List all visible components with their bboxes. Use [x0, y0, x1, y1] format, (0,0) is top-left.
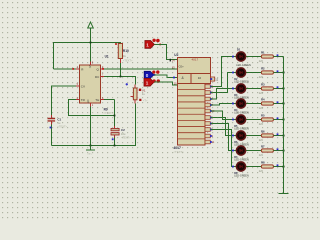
wire LED D6 row [237, 135, 261, 137]
ground symbol left stem [90, 146, 92, 151]
pin-state dot blue CO [210, 78, 212, 80]
wire LED D4 row [237, 103, 261, 105]
output pin box Q2 [205, 97, 210, 101]
svg-text:V1: V1 [142, 88, 146, 92]
pin-state dot blue Q4 [210, 110, 212, 112]
junction ground rail row 2 [283, 72, 285, 74]
wire LED D5 row [237, 119, 261, 121]
svg-text:R3: R3 [261, 83, 265, 87]
svg-text:LED-GREEN: LED-GREEN [234, 175, 249, 178]
svg-text:D1: D1 [237, 48, 241, 52]
LED D8 [236, 162, 245, 171]
svg-text:TH: TH [95, 98, 99, 102]
capacitor C2 bottom lead [114, 135, 116, 138]
pin stub U1 CV [76, 85, 80, 87]
pin-state dot blue C1 [50, 127, 52, 129]
junction ground rail row 5 [283, 119, 285, 121]
LED D7 [236, 146, 245, 155]
pin stub U1 GND [90, 103, 92, 107]
pin-state dot blue R8 [277, 164, 279, 166]
svg-text:U1: U1 [105, 55, 109, 59]
pin-state dot blue Q7 [210, 129, 212, 131]
carry out pin box [211, 77, 215, 81]
counter U2 enable block [178, 74, 192, 84]
svg-text:R5: R5 [261, 114, 265, 118]
wire U1 CV to C1 [52, 86, 77, 115]
capacitor C1 bottom lead [51, 122, 53, 125]
resistor R8 body [261, 165, 273, 168]
svg-text:R2: R2 [261, 67, 265, 71]
logicstate top toggle arrows [152, 39, 155, 42]
wire right ground rail [283, 57, 285, 194]
wire Q1 to LED D2 [211, 73, 238, 93]
wire R2 to ground rail [273, 72, 283, 74]
wire R5 to ground rail [273, 119, 283, 121]
pin-state dot blue R5 [277, 117, 279, 119]
resistor R1 body [261, 55, 273, 58]
wire U1 TR loop [69, 100, 115, 116]
pin-state dot blue R6 [277, 133, 279, 135]
svg-text:1: 1 [146, 80, 149, 85]
svg-text:R6: R6 [261, 130, 265, 134]
wire R8 to ground rail [273, 166, 283, 168]
pin-state dot blue Q2 [210, 98, 212, 100]
svg-text:C2: C2 [121, 128, 125, 132]
svg-text:R7: R7 [261, 145, 265, 149]
svg-text:<TEXT>: <TEXT> [173, 150, 184, 154]
junction ground rail / C2 [114, 145, 116, 147]
svg-text:<TEXT>: <TEXT> [123, 59, 133, 63]
pin-state dot blue LED D4 anode [232, 103, 234, 105]
junction VCC rail / U1 pin 8 [90, 42, 92, 44]
wire C2 bottom to ground rail [114, 138, 116, 146]
resistor R9 left tick [131, 96, 134, 98]
pin-state dot blue Q9 [210, 141, 212, 143]
svg-text:<T>: <T> [88, 153, 93, 156]
ground symbol right bar [279, 193, 289, 195]
pin stub U1 DC [101, 76, 105, 78]
pin-state dot blue R7 [277, 148, 279, 150]
resistor R10 body [118, 44, 122, 59]
pin-state dot blue LED D8 anode [232, 166, 234, 168]
op-amp U1 555 body [80, 65, 101, 103]
svg-text:10: 10 [198, 76, 202, 80]
wire LED D8 row [237, 166, 261, 168]
pin stub U1 TR [76, 99, 80, 101]
wire Q3 to LED D4 [211, 104, 238, 106]
logicstate mid (0) [144, 71, 154, 78]
wire R3 to ground rail [273, 88, 283, 90]
output pin box Q1 [205, 91, 210, 95]
pin-state dot blue Q8 [210, 135, 212, 137]
svg-text:220: 220 [259, 139, 264, 142]
wire C1 bottom to ground rail [51, 125, 53, 146]
svg-text:220: 220 [259, 107, 264, 110]
wire R1 to ground rail [273, 56, 283, 58]
resistor R5 body [261, 118, 273, 121]
wire Q5 to LED D6 [211, 118, 238, 136]
wire logicstate mid to U2 EN [154, 75, 178, 78]
svg-text:<TEXT>: <TEXT> [121, 135, 131, 139]
LED D4 [236, 99, 245, 108]
logicstate top (1) [145, 41, 154, 49]
svg-text:220: 220 [259, 170, 264, 173]
output pin box Q4 [205, 109, 210, 113]
wire U1 Q to U2 pin 13 [104, 68, 178, 70]
wire logicstate top to U2 CLK [154, 45, 177, 60]
svg-text:220: 220 [259, 76, 264, 79]
svg-text:220: 220 [259, 60, 264, 63]
pin-state dot blue LED D3 anode [232, 88, 234, 90]
junction ground rail row 8 [283, 166, 285, 168]
pin-state dot blue R4 [277, 101, 279, 103]
wire R4 to ground rail [273, 103, 283, 105]
pin-state dot blue Q0 [210, 86, 212, 88]
pin-state dot blue LED D7 anode [232, 150, 234, 152]
pin-state dot blue C2 [112, 138, 114, 140]
resistor R3 body [261, 87, 273, 90]
counter U2 output array [178, 84, 206, 146]
logicstate bottom (1) [144, 78, 154, 86]
svg-text:R1: R1 [261, 51, 265, 55]
capacitor C2 plates [111, 128, 119, 130]
resistor R9 top lead [134, 85, 136, 89]
pin-state dot red U1 pin 3 [102, 68, 104, 70]
svg-text:0: 0 [146, 73, 149, 78]
svg-text:U2: U2 [174, 53, 178, 57]
wire LED D3 row [237, 88, 261, 90]
pin-state dot blue Q5 [210, 117, 212, 119]
counter U2 4017 top block [178, 58, 211, 74]
pin-state blue cross on DC wire [126, 83, 128, 85]
output pin box Q8 [205, 134, 210, 138]
svg-text:220: 220 [259, 123, 264, 126]
output pin box Q0 [205, 85, 210, 89]
wire LED D2 row [237, 72, 261, 74]
svg-text:220: 220 [259, 154, 264, 157]
output pin box Q9 [205, 140, 210, 144]
svg-text:220: 220 [259, 92, 264, 95]
pin-state dot red near R10 top [115, 43, 117, 45]
svg-text:VC: VC [88, 65, 91, 69]
svg-text:R9: R9 [104, 107, 108, 111]
resistor R7 body [261, 149, 273, 152]
wire R9 bottom to ground rail [52, 104, 136, 146]
pin-state dot red logicstate top [159, 44, 161, 46]
output pin box Q3 [205, 103, 210, 107]
pin-state dot blue Q6 [210, 123, 212, 125]
logicstate bottom toggle arrows [152, 79, 155, 82]
wire Q0 to LED D1 [211, 57, 238, 87]
capacitor C1 top lead [51, 115, 53, 118]
wire U1 DC to R9 top [104, 77, 136, 85]
svg-text:C1: C1 [57, 117, 61, 121]
pin-state dot blue LED D6 anode [232, 135, 234, 137]
svg-text:1: 1 [146, 42, 149, 47]
pin-state dot blue Q1 [210, 92, 212, 94]
ground symbol left bar [86, 149, 95, 151]
svg-text:4017: 4017 [192, 58, 199, 62]
svg-text:R8: R8 [261, 161, 265, 165]
wire R10 bottom to DC node [120, 63, 122, 77]
wire U1 GND pin to ground rail [90, 107, 92, 150]
logicstate mid toggle arrows [152, 71, 155, 74]
resistor R10 bottom lead [120, 59, 122, 64]
svg-text:R4: R4 [261, 98, 265, 102]
resistor R9 body [133, 88, 137, 100]
power VCC arrow [88, 22, 94, 28]
svg-text:GN: GN [87, 99, 90, 103]
output pin box Q7 [205, 128, 210, 132]
pin stub U1 R [76, 68, 80, 70]
wire LED D7 row [237, 150, 261, 152]
voltage probe V1 marker [139, 89, 141, 91]
wire Q7 to LED D8 [211, 130, 238, 167]
resistor R9 bottom lead [134, 100, 136, 104]
LED D1 [236, 52, 245, 61]
junction ground rail / U1 GND [90, 145, 92, 147]
svg-text:<T>: <T> [143, 98, 148, 102]
wire top VCC rail [54, 43, 121, 70]
pin-state dot red U1 pin 4 [72, 68, 74, 70]
wire Q4 to LED D5 [211, 111, 238, 120]
junction ground rail row 3 [283, 88, 285, 90]
pin-state dot blue LED D2 anode [232, 72, 234, 74]
LED D2 [236, 68, 245, 77]
junction DC node / R10 [120, 76, 122, 78]
pin stub U1 VCC [90, 62, 92, 66]
wire R7 to ground rail [273, 150, 283, 152]
svg-text:R10: R10 [123, 49, 129, 53]
resistor R6 body [261, 134, 273, 137]
wire LED D1 row [237, 56, 261, 58]
pin stub U1 TH [101, 99, 105, 101]
wire Q2 to LED D3 [211, 89, 238, 100]
capacitor C1 plates [48, 119, 56, 121]
svg-text:10u: 10u [121, 132, 126, 136]
pin-state dot blue LED D1 anode [232, 56, 234, 58]
pin-state dot blue LED D5 anode [232, 119, 234, 121]
pin-state dot blue U2 EN [173, 77, 175, 79]
capacitor C2 top lead [114, 126, 116, 128]
wire R6 to ground rail [273, 135, 283, 137]
wire VCC arrow stem to U1 pin 8 [90, 28, 92, 65]
pin-state dot blue Q3 [210, 104, 212, 106]
wire logicstate bottom to U2 RST [154, 82, 178, 85]
junction TR-TH node / C2 [114, 115, 116, 117]
wire rail to U1 reset pin [54, 68, 77, 70]
svg-text:12: 12 [215, 77, 218, 81]
pin stub U1 Q [101, 68, 105, 70]
pin-state dot blue R1 [277, 54, 279, 56]
resistor R4 body [261, 102, 273, 105]
pin 14 tick [170, 59, 171, 62]
svg-text:<TEXT>: <TEXT> [104, 111, 114, 115]
LED D5 [236, 115, 245, 124]
wire Q6 to LED D7 [211, 124, 238, 151]
output pin box Q6 [205, 122, 210, 126]
svg-text:CV: CV [81, 84, 85, 88]
svg-text:<TEXT>: <TEXT> [57, 124, 67, 128]
counter U2 divider block [191, 74, 211, 84]
LED D6 [236, 131, 245, 140]
svg-text:C0+: C0+ [179, 65, 185, 69]
junction ground rail row 6 [283, 135, 285, 137]
pin-state dot blue logicstate mid [154, 74, 156, 76]
probe marker 2 [139, 99, 141, 101]
svg-text:LED-GREEN: LED-GREEN [236, 64, 251, 67]
junction ground rail row 7 [283, 150, 285, 152]
pin-state dot blue R2 [277, 70, 279, 72]
wire U1 TH to C2 [104, 100, 115, 127]
junction ground rail row 4 [283, 103, 285, 105]
LED D3 [236, 84, 245, 93]
resistor R2 body [261, 71, 273, 74]
pin-state dot blue R3 [277, 86, 279, 88]
output pin box Q5 [205, 116, 210, 120]
